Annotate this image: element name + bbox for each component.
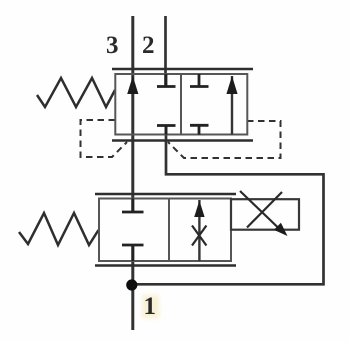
valve V2 position divider [168, 199, 170, 262]
valve V2 left box blocked port T top [122, 199, 144, 213]
svg-text:3: 3 [106, 32, 119, 59]
wire port 1 lower vertical line [131, 245, 134, 330]
valve V1 right box flow arrow [231, 76, 233, 135]
valve V2 right box throttle cross [192, 226, 206, 246]
variable throttle arrow shaft [240, 191, 279, 229]
label tint behind port 1 [142, 295, 159, 318]
valve V1 right box blocked port T bottom [190, 125, 209, 134]
pilot line dashed right loop [168, 121, 281, 158]
spring of valve V2 [19, 213, 99, 245]
junction node dot port 1 [126, 279, 137, 290]
proportional-valve outer line bottom (valve V1) [112, 139, 253, 141]
proportional-valve outer line top (valve V2) [95, 193, 236, 195]
wire from valve V1 left-box bottom to node, around right side [136, 126, 324, 285]
valve V2 body [99, 199, 231, 262]
svg-text:1: 1 [144, 293, 157, 320]
wire port 3 vertical line [131, 16, 134, 212]
wire port 2 vertical line [164, 16, 167, 87]
svg-text:2: 2 [142, 32, 155, 59]
pilot line dashed left loop [81, 120, 128, 157]
valve V1 left box blocked port T bottom [157, 126, 176, 135]
valve V2 left box blocked port T bottom [122, 245, 144, 261]
valve V1 left box blocked port T top [157, 74, 176, 87]
valve V2 right box metering line [198, 200, 200, 261]
variable throttle box [231, 199, 299, 230]
proportional-valve outer line top (valve V1) [112, 68, 253, 70]
valve V2 right box metering arrow head [194, 201, 204, 218]
variable throttle arrow head [274, 223, 288, 236]
proportional-valve outer line bottom (valve V2) [95, 264, 236, 266]
valve V1 position divider [180, 74, 182, 135]
valve V1 right box blocked port T top [190, 74, 209, 87]
variable throttle cross leg [247, 192, 282, 228]
spring of valve V1 [37, 78, 115, 107]
valve V1 right box flow arrow head [226, 76, 237, 94]
valve V1 left box flow arrow head [127, 76, 138, 94]
valve V1 body [115, 74, 247, 135]
